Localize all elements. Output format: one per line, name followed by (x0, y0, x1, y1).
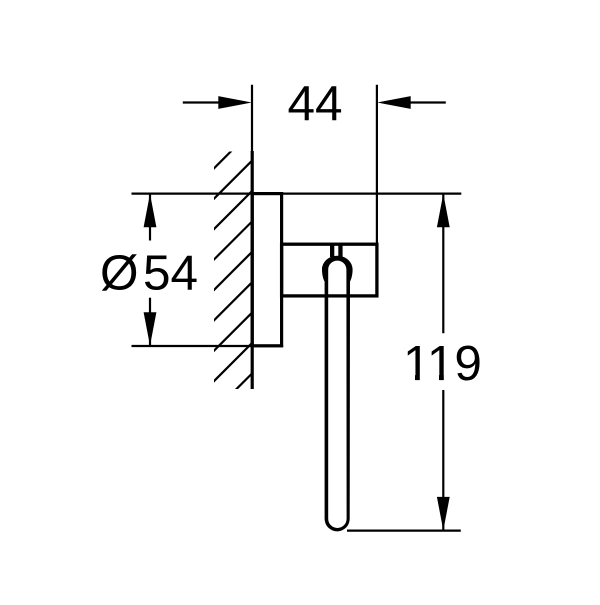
paper roll holder wire loop (322, 256, 353, 532)
arrowhead 44 left (218, 96, 252, 109)
top extension line (top of plate / 119 top reference) (132, 193, 462, 195)
arrowhead diameter 54 down (144, 312, 157, 346)
arrowhead diameter 54 up (144, 194, 157, 228)
arrowhead 119 down (437, 497, 450, 531)
dimension line diameter 54 upper segment (149, 194, 151, 241)
patch: remove Liberation Sans foot serif on both 1 digits (404, 376, 429, 381)
bottom extension line of 119 (347, 529, 461, 531)
dimension line 119 upper segment (442, 194, 444, 333)
holder body bracket (282, 244, 377, 296)
svg-text:119: 119 (403, 336, 482, 391)
arrowhead 119 up (437, 194, 450, 228)
dimension line 44 right segment (384, 101, 446, 103)
extension line 44 left (wall face) (251, 85, 253, 152)
dimension line 119 lower segment (442, 390, 444, 530)
bottom extension line of diameter 54 (132, 345, 284, 347)
wall plate (side view of round rosette) (252, 194, 281, 346)
wall hatching (213, 129, 253, 443)
dimension line diameter 54 lower segment (149, 298, 151, 346)
svg-text:Ø54: Ø54 (100, 246, 198, 301)
extension line 44 right (front of holder) (376, 85, 378, 245)
dimension line 44 left segment (183, 101, 245, 103)
svg-text:44: 44 (287, 76, 342, 131)
pivot pin (330, 244, 334, 258)
wall line (251, 151, 254, 389)
arrowhead 44 right (377, 96, 411, 109)
